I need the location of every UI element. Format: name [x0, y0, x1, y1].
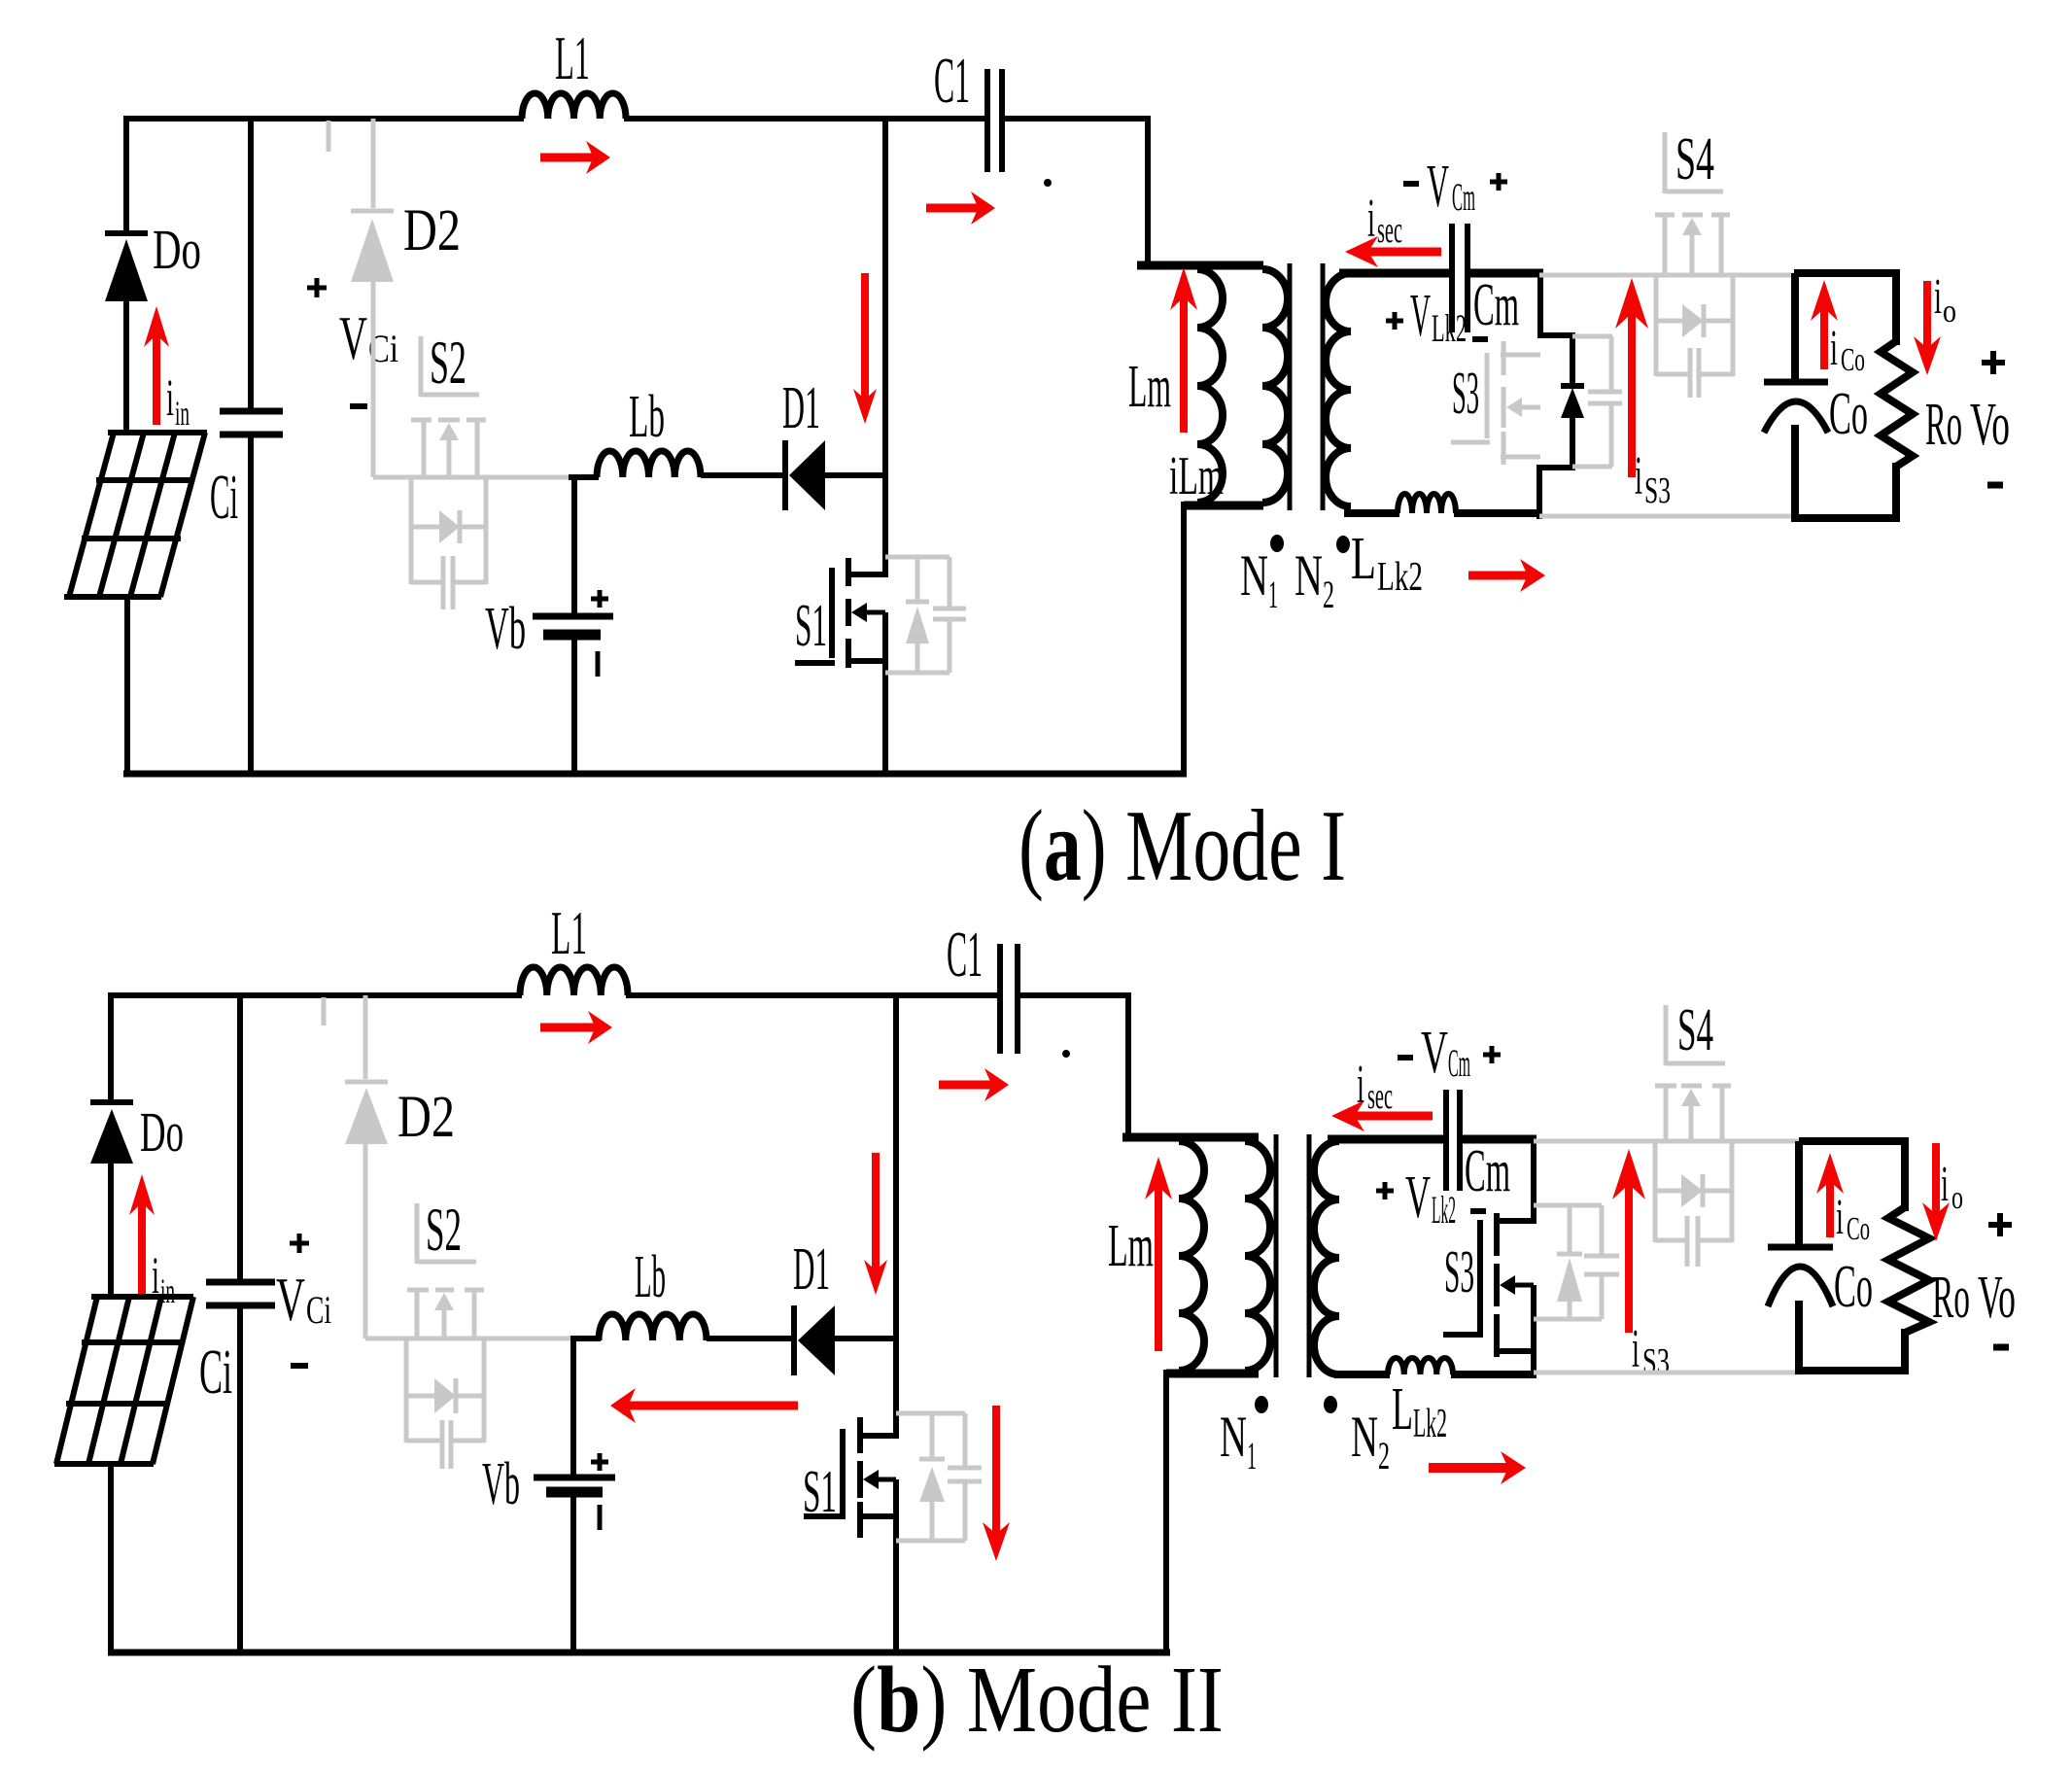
- svg-text:S3: S3: [1444, 1239, 1474, 1305]
- wire Cm to S3 (a): [1465, 273, 1572, 388]
- label S1 (a): [795, 593, 827, 659]
- svg-text:Ci: Ci: [306, 1288, 331, 1332]
- label Vo minus (b): [1993, 1344, 2009, 1351]
- label iCo (b): [1836, 1190, 1870, 1247]
- svg-text:L: L: [1392, 1376, 1413, 1443]
- label Cm (a): [1473, 272, 1519, 338]
- snubber capacitor S4 (a): [1690, 348, 1699, 398]
- wire Ci branch bottom (a): [248, 432, 254, 777]
- svg-text:V: V: [1410, 283, 1431, 349]
- svg-text:Cm: Cm: [1452, 175, 1475, 219]
- svg-text:L: L: [1351, 526, 1376, 592]
- capacitor C1 (b): [1000, 944, 1018, 1054]
- label iS3 (a): [1635, 446, 1671, 511]
- label VCi (a): [339, 303, 398, 372]
- label VLk2 plus (a): [1386, 312, 1403, 330]
- label iin (a): [166, 368, 190, 433]
- wire Ci branch bottom (b): [237, 1303, 243, 1655]
- snubber capacitor S1 (a): [933, 608, 966, 619]
- svg-text:Co: Co: [1841, 342, 1865, 378]
- label VCi (b): [276, 1265, 331, 1334]
- svg-text:Lk2: Lk2: [1432, 1188, 1456, 1232]
- label VLk2 (a): [1410, 283, 1467, 350]
- svg-text:i: i: [1635, 446, 1642, 506]
- wire Do to panel (a): [123, 299, 129, 435]
- polarity dot N2 (a): [1336, 536, 1350, 553]
- svg-text:i: i: [166, 368, 174, 427]
- label N1 (a): [1240, 543, 1278, 616]
- svg-text:2: 2: [1323, 573, 1334, 616]
- mosfet S1 (b): [804, 1417, 896, 1538]
- svg-text:C1: C1: [934, 45, 970, 117]
- wire transformer primary top (a): [1137, 261, 1263, 270]
- svg-text:i: i: [1934, 269, 1942, 325]
- svg-text:L1: L1: [555, 23, 590, 92]
- label S2 (a): [430, 329, 466, 397]
- snubber capacitor S2 (a): [443, 556, 453, 609]
- snubber capacitor S2 (b): [442, 1420, 451, 1469]
- wire secondary bottom (a): [1344, 509, 1399, 517]
- svg-text:D2: D2: [403, 198, 461, 263]
- label Lm (b): [1108, 1213, 1154, 1279]
- label iLm (a): [1169, 446, 1224, 506]
- label Vo (a): [1970, 392, 2010, 458]
- wire output loop (a): [1794, 273, 1900, 522]
- svg-text:(a) Mode I: (a) Mode I: [1019, 788, 1346, 902]
- battery Vb (b): [534, 1477, 615, 1492]
- label Vb (b): [482, 1451, 520, 1517]
- svg-text:Ci: Ci: [210, 462, 238, 533]
- node dot near C1 (a): [1044, 179, 1052, 187]
- diode Do (b): [90, 1102, 133, 1164]
- diode D2 (b): [345, 995, 388, 1338]
- svg-text:i: i: [1357, 1055, 1364, 1115]
- svg-text:o: o: [1951, 1180, 1963, 1216]
- winding N2 secondary (a): [1326, 273, 1351, 506]
- svg-text:1: 1: [1268, 573, 1278, 616]
- mosfet S3 (a): [1451, 341, 1540, 465]
- wire gray bottom bus (b): [1534, 1371, 1802, 1375]
- current arrow iLm (a): [1170, 267, 1197, 433]
- label Ci (a): [210, 462, 238, 533]
- current arrow through LLk2 (a): [1468, 559, 1545, 592]
- svg-text:Vb: Vb: [485, 596, 526, 662]
- wire secondary top (a): [1339, 269, 1454, 278]
- svg-text:in: in: [175, 394, 190, 433]
- node dot near C1 (b): [1062, 1050, 1070, 1058]
- wire top rail left segment (a): [126, 116, 524, 236]
- label Do (a): [153, 218, 201, 281]
- body diode S2 (b): [434, 1378, 456, 1413]
- snubber loop wires S1 (a): [885, 557, 950, 673]
- current arrow through L1 (b): [540, 1011, 612, 1044]
- capacitor Co (a): [1764, 382, 1828, 433]
- current arrow after C1 (a): [926, 191, 995, 225]
- wire S1 source to bottom rail (b): [893, 1479, 899, 1655]
- svg-text:(b) Mode II: (b) Mode II: [850, 1648, 1224, 1752]
- wire LLk2 to S3 (a): [1454, 509, 1541, 517]
- body diode S2 (a): [439, 510, 460, 543]
- wire LLk2 to S3 (b): [1451, 1371, 1537, 1378]
- label Vo plus (b): [1988, 1213, 2012, 1236]
- wire transformer primary bottom (a): [1184, 502, 1263, 777]
- wire bottom rail (a): [123, 771, 1187, 778]
- label N2 (b): [1351, 1405, 1390, 1477]
- svg-text:i: i: [1367, 189, 1375, 249]
- svg-text:N: N: [1240, 543, 1268, 608]
- svg-text:Lk2: Lk2: [1413, 1402, 1447, 1446]
- svg-text:Ro: Ro: [1925, 392, 1962, 458]
- wire output loop (b): [1799, 1141, 1909, 1374]
- svg-text:Vo: Vo: [1978, 1265, 2016, 1331]
- inductor L1 (b): [520, 967, 628, 995]
- polarity dot N1 (b): [1255, 1396, 1268, 1413]
- wire Do to panel (b): [108, 1162, 114, 1299]
- wire top rail middle segment (a): [624, 116, 989, 122]
- wire S3 source to secondary bottom (b): [1531, 1285, 1537, 1377]
- body diode S4 (b): [1681, 1174, 1703, 1207]
- label VLk2 minus (b): [1470, 1208, 1486, 1214]
- svg-text:Lm: Lm: [1108, 1213, 1154, 1279]
- svg-text:iLm: iLm: [1169, 446, 1224, 506]
- svg-text:D1: D1: [782, 375, 820, 441]
- svg-text:Vb: Vb: [482, 1451, 520, 1517]
- svg-text:S2: S2: [426, 1196, 462, 1264]
- label C1 (a): [934, 45, 970, 117]
- wire Lb to D1 (a): [701, 472, 787, 478]
- snubber capacitor S3 (b): [1584, 1256, 1619, 1274]
- svg-text:Vo: Vo: [1970, 392, 2010, 458]
- svg-text:D1: D1: [793, 1236, 830, 1303]
- capacitor Cm (a): [1452, 224, 1468, 332]
- label Lm (a): [1128, 354, 1171, 420]
- snubber loop wires S1 (b): [896, 1413, 965, 1541]
- wire top rail left segment (b): [111, 992, 522, 1105]
- wire C1 to transformer (b): [1016, 995, 1131, 1137]
- current arrow iS3 (a): [1615, 278, 1648, 477]
- label Vo (b): [1978, 1265, 2016, 1331]
- body diode S1 (b): [919, 1459, 945, 1502]
- label Ro (a): [1925, 392, 1962, 458]
- inductor Lb (a): [597, 451, 701, 477]
- label S2 (b): [426, 1196, 462, 1264]
- label L1 (a): [555, 23, 590, 92]
- snubber loop wires S2 (b): [406, 1338, 484, 1443]
- body diode S3 (b): [1557, 1254, 1582, 1302]
- svg-text:sec: sec: [1377, 210, 1402, 251]
- capacitor C1 (a): [987, 69, 1002, 172]
- snubber loop wires S4 (a): [1656, 275, 1733, 376]
- wire Vb to bottom rail (b): [570, 1489, 576, 1655]
- current arrow into S1 branch (b): [864, 1153, 887, 1295]
- wire panel to bottom rail (a): [124, 597, 130, 777]
- wire D1 to junction (a): [823, 472, 888, 478]
- svg-text:V: V: [1421, 1020, 1448, 1086]
- label Co (a): [1829, 381, 1868, 447]
- label VCm plus (a): [1490, 173, 1507, 191]
- unused gate stub (a): [327, 121, 331, 152]
- svg-text:i: i: [1836, 1190, 1844, 1245]
- mosfet S4 (a): [1655, 132, 1730, 275]
- wire bottom rail (b): [108, 1650, 1170, 1656]
- wire S2 bus to Lb corner (b): [570, 1338, 601, 1480]
- label Lb (a): [629, 384, 665, 450]
- svg-text:Lk2: Lk2: [1432, 306, 1467, 350]
- svg-text:sec: sec: [1367, 1076, 1393, 1117]
- inductor LLk2 (b): [1388, 1358, 1453, 1374]
- caption (a) Mode I: [1019, 788, 1346, 902]
- label VCi minus (a): [350, 403, 367, 409]
- body diode S1 (a): [906, 602, 929, 643]
- capacitor Ci (b): [206, 1282, 275, 1305]
- svg-text:Co: Co: [1829, 381, 1868, 447]
- svg-text:D2: D2: [397, 1085, 455, 1150]
- inductor Lm winding (a): [1197, 269, 1223, 503]
- solar panel PV (b): [54, 1297, 193, 1464]
- snubber loop wires S3 (b): [1534, 1205, 1602, 1319]
- svg-text:L1: L1: [551, 898, 587, 967]
- svg-text:i: i: [1941, 1157, 1949, 1212]
- svg-text:Do: Do: [153, 218, 201, 281]
- label Co (b): [1834, 1254, 1873, 1320]
- svg-text:i: i: [1830, 321, 1838, 376]
- label Vb minus (b): [598, 1505, 603, 1530]
- svg-text:Ro: Ro: [1932, 1265, 1970, 1331]
- label io (b): [1941, 1157, 1963, 1216]
- inductor Lm winding (b): [1179, 1141, 1204, 1371]
- wire junction vertical (b): [893, 995, 899, 1439]
- label S4 (b): [1677, 997, 1713, 1063]
- label D2 (a): [403, 198, 461, 263]
- label VCm (a): [1427, 154, 1475, 220]
- label D1 (b): [793, 1236, 830, 1303]
- solar panel PV (a): [64, 433, 207, 597]
- snubber capacitor S1 (b): [948, 1468, 982, 1481]
- label N2 (a): [1295, 543, 1334, 616]
- label L1 (b): [551, 898, 587, 967]
- svg-text:S3: S3: [1644, 470, 1671, 511]
- wire Ci branch top (b): [237, 995, 243, 1285]
- capacitor Co (b): [1768, 1247, 1833, 1306]
- svg-text:S2: S2: [430, 329, 466, 397]
- current arrow through L1 (a): [540, 141, 610, 174]
- capacitor Cm (b): [1446, 1090, 1460, 1191]
- current arrow after C1 (b): [939, 1068, 1009, 1101]
- svg-text:Cm: Cm: [1473, 272, 1519, 338]
- wire C1 to transformer (a): [1000, 119, 1151, 265]
- svg-text:N: N: [1220, 1405, 1247, 1469]
- wire D1 to junction (b): [833, 1336, 899, 1341]
- current arrow iCo (b): [1816, 1153, 1844, 1237]
- svg-text:V: V: [339, 303, 367, 372]
- label S4 (a): [1675, 126, 1714, 192]
- label C1 (b): [947, 919, 983, 991]
- mosfet S3 (b): [1443, 1213, 1534, 1357]
- svg-text:Lb: Lb: [629, 384, 665, 450]
- current arrow iCo (a): [1811, 280, 1838, 369]
- snubber loop wires S2 (a): [411, 477, 486, 584]
- snubber capacitor S4 (b): [1687, 1216, 1698, 1267]
- wire panel to bottom rail (b): [108, 1464, 114, 1655]
- svg-text:Cm: Cm: [1465, 1138, 1510, 1204]
- snubber loop wires S4 (b): [1655, 1143, 1732, 1242]
- diode D1 (b): [794, 1305, 835, 1375]
- inductor LLk2 (a): [1398, 494, 1456, 513]
- label iin (b): [152, 1246, 175, 1310]
- label VCm minus (a): [1403, 181, 1419, 187]
- label VCi minus (b): [291, 1363, 308, 1369]
- wire S1 source to bottom rail (a): [882, 612, 888, 777]
- label D2 (b): [397, 1085, 455, 1150]
- label VCm minus (b): [1398, 1055, 1413, 1060]
- unused gate stub (b): [322, 997, 327, 1026]
- current arrow through S1 (b): [983, 1406, 1010, 1561]
- svg-text:N: N: [1351, 1405, 1378, 1469]
- label Ro (b): [1932, 1265, 1970, 1331]
- svg-text:V: V: [276, 1265, 305, 1334]
- label iS3 (b): [1632, 1319, 1670, 1382]
- current arrow into S1 branch (a): [853, 273, 877, 424]
- label iCo (a): [1830, 321, 1865, 378]
- diode Do (a): [105, 233, 148, 301]
- mosfet S2 (b): [407, 1203, 484, 1338]
- wire S2 bus (a): [373, 475, 570, 480]
- label VCi plus (b): [290, 1234, 309, 1253]
- current arrow iS3 (b): [1612, 1149, 1645, 1333]
- svg-text:1: 1: [1247, 1434, 1257, 1477]
- svg-text:Ci: Ci: [199, 1337, 232, 1408]
- label Vb plus (a): [591, 590, 608, 608]
- svg-text:S3: S3: [1642, 1341, 1670, 1382]
- wire secondary top (b): [1328, 1135, 1448, 1144]
- diode D2 (a): [351, 119, 394, 477]
- svg-text:2: 2: [1378, 1434, 1390, 1477]
- svg-text:Lk2: Lk2: [1377, 555, 1423, 600]
- label io (a): [1934, 269, 1956, 330]
- svg-text:Lb: Lb: [635, 1244, 666, 1310]
- label Vb plus (b): [591, 1453, 608, 1471]
- label S3 (a): [1452, 361, 1479, 427]
- wire gray top bus (b): [1534, 1139, 1802, 1144]
- wire S2 bus (b): [365, 1337, 572, 1341]
- polarity dot N1 (a): [1270, 535, 1284, 552]
- label Lb (b): [635, 1244, 666, 1310]
- svg-text:N: N: [1295, 543, 1323, 608]
- snubber capacitor S3 (a): [1572, 336, 1622, 467]
- wire transformer primary top (b): [1122, 1133, 1259, 1142]
- battery Vb (a): [533, 616, 613, 635]
- current arrow io (a): [1914, 281, 1941, 375]
- label VLk2 plus (b): [1376, 1182, 1394, 1199]
- svg-text:Cm: Cm: [1448, 1041, 1470, 1085]
- wire Vb to bottom rail (a): [571, 632, 577, 777]
- wire Cm to S3 (b): [1457, 1139, 1537, 1224]
- resistor Ro (b): [1888, 1207, 1929, 1333]
- svg-text:Co: Co: [1834, 1254, 1873, 1320]
- svg-text:C1: C1: [947, 919, 983, 991]
- label Do (b): [140, 1100, 184, 1164]
- body diode S4 (a): [1682, 304, 1704, 337]
- winding N2 secondary (b): [1314, 1141, 1339, 1374]
- polarity dot N2 (b): [1324, 1396, 1337, 1413]
- label Vo plus (a): [1982, 351, 2005, 374]
- label Vo minus (a): [1987, 482, 2003, 489]
- svg-text:o: o: [1943, 294, 1956, 330]
- svg-text:in: in: [160, 1271, 175, 1310]
- winding N1 (a): [1262, 269, 1288, 503]
- label S1 (b): [803, 1459, 837, 1525]
- mosfet S2 (a): [411, 336, 486, 477]
- svg-text:S4: S4: [1675, 126, 1714, 192]
- wire gray top bus (a): [1539, 273, 1797, 278]
- body diode S3 conducting (a): [1561, 386, 1584, 418]
- label D1 (a): [782, 375, 820, 441]
- transformer core (b): [1276, 1134, 1309, 1377]
- svg-text:S4: S4: [1677, 997, 1713, 1063]
- svg-text:Lm: Lm: [1128, 354, 1171, 420]
- label VCm plus (b): [1483, 1046, 1501, 1063]
- caption (b) Mode II: [850, 1648, 1224, 1752]
- current arrow iin (b): [129, 1174, 155, 1295]
- svg-text:V: V: [1427, 154, 1449, 220]
- transformer core (a): [1290, 263, 1323, 510]
- mosfet S4 (b): [1655, 1005, 1731, 1143]
- svg-text:Do: Do: [140, 1100, 184, 1164]
- current arrow io (b): [1922, 1143, 1950, 1241]
- current arrow iin (a): [144, 306, 169, 425]
- winding N1 (b): [1245, 1141, 1270, 1371]
- wire S2 bus to Lb corner (a): [569, 477, 599, 619]
- label isec (a): [1367, 189, 1402, 251]
- label LLk2 (b): [1392, 1376, 1447, 1446]
- label Ci (b): [199, 1337, 232, 1408]
- label VLk2 minus (a): [1472, 336, 1488, 342]
- svg-text:V: V: [1405, 1165, 1431, 1231]
- wire Ci branch top (a): [248, 119, 254, 414]
- wire top rail middle segment (b): [626, 992, 1002, 998]
- capacitor Ci (a): [220, 411, 283, 435]
- wire S3 diode to secondary bottom (a): [1539, 416, 1572, 519]
- current arrow isec (b): [1331, 1100, 1433, 1131]
- label Vb (a): [485, 596, 526, 662]
- wire secondary bottom (b): [1334, 1371, 1390, 1378]
- current arrow isec (a): [1345, 236, 1441, 267]
- wire transformer primary bottom (b): [1166, 1370, 1259, 1655]
- label isec (b): [1357, 1055, 1393, 1117]
- label S3 (b): [1444, 1239, 1474, 1305]
- wire gray bottom bus (a): [1539, 514, 1797, 519]
- diode D1 (a): [785, 440, 825, 510]
- wire Lb to D1 (b): [707, 1336, 796, 1341]
- inductor L1 (a): [522, 93, 626, 119]
- current arrow iLm (b): [1145, 1157, 1172, 1351]
- current arrow reverse through Lb (b): [610, 1388, 798, 1423]
- svg-text:S3: S3: [1452, 361, 1479, 427]
- label LLk2 (a): [1351, 526, 1423, 600]
- label Cm (b): [1465, 1138, 1510, 1204]
- svg-text:Co: Co: [1847, 1211, 1870, 1247]
- current arrow through LLk2 (b): [1429, 1451, 1526, 1484]
- label VCm (b): [1421, 1020, 1470, 1086]
- label N1 (b): [1220, 1405, 1257, 1477]
- inductor Lb (b): [599, 1314, 707, 1340]
- label Vb minus (a): [596, 651, 601, 677]
- svg-text:S1: S1: [795, 593, 827, 659]
- label VCi plus (a): [307, 278, 327, 297]
- svg-text:S1: S1: [803, 1459, 837, 1525]
- label VLk2 (b): [1405, 1165, 1456, 1232]
- wire junction vertical (a): [882, 119, 888, 577]
